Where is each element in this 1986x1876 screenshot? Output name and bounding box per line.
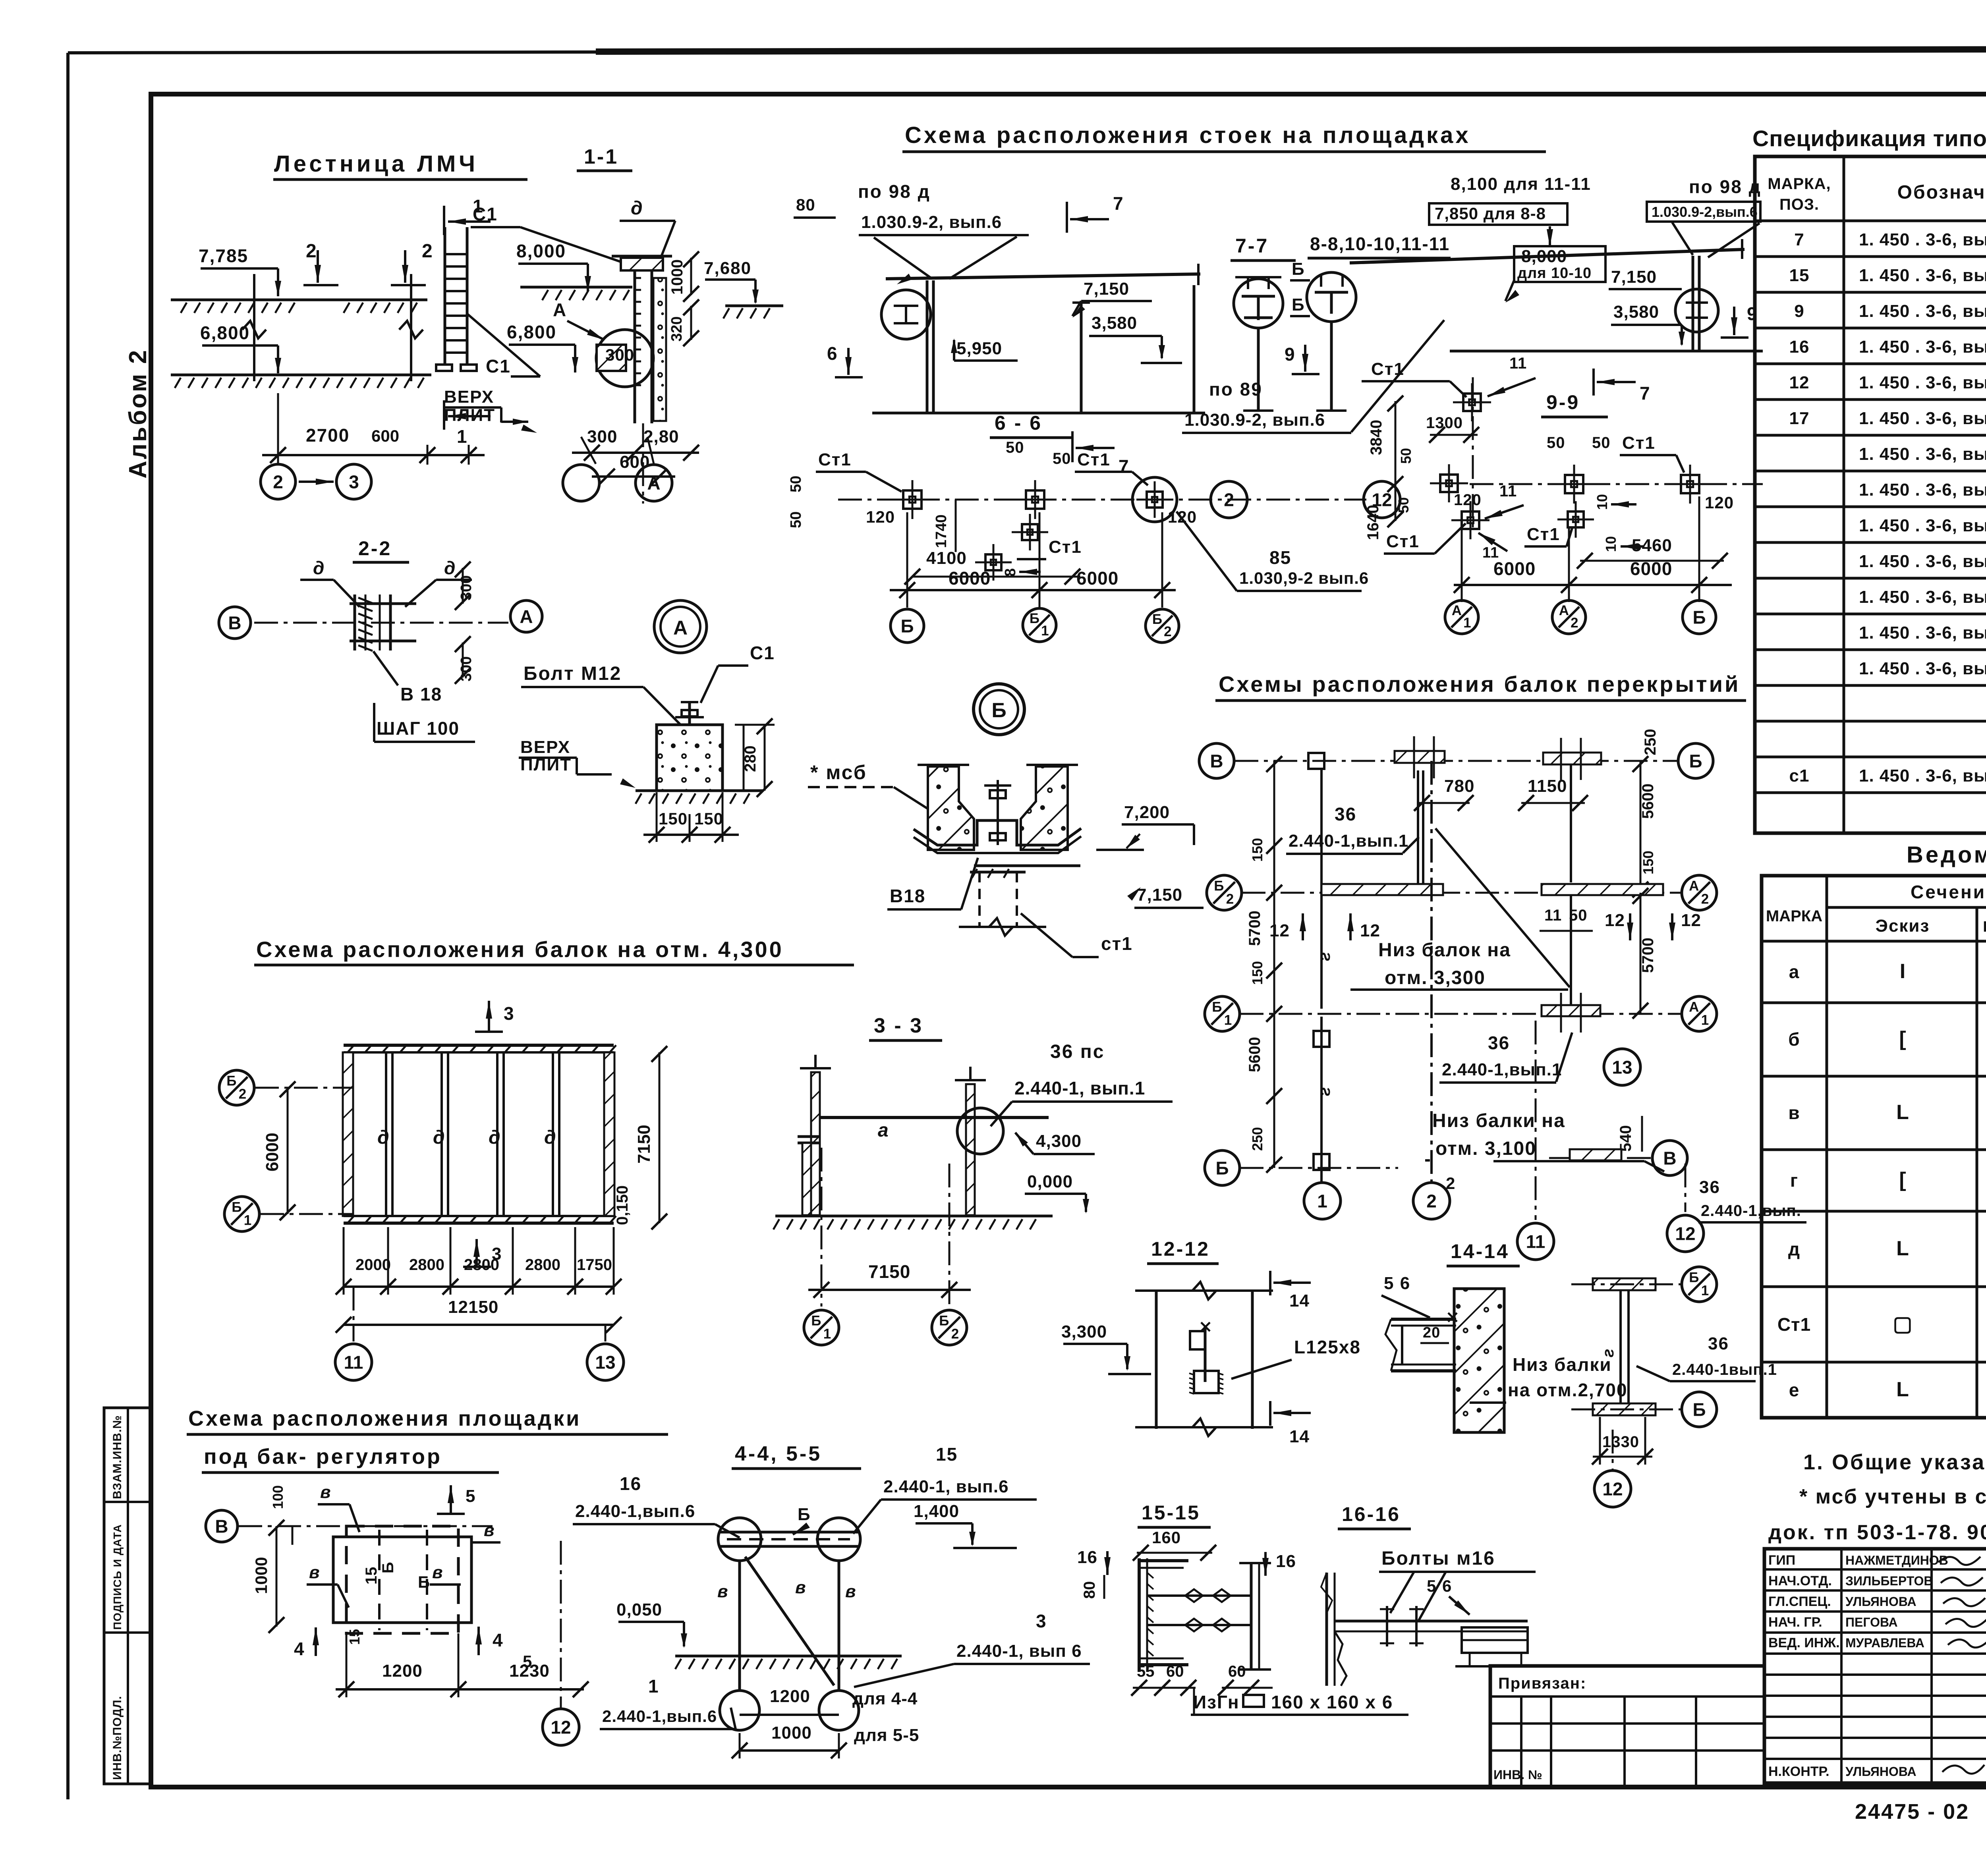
joint hatched block [597, 345, 626, 371]
small post square row3 [1314, 1031, 1329, 1047]
grid bubble 12 (6-6 plan) [1364, 481, 1400, 518]
svg-text:17: 17 [1789, 409, 1810, 428]
16-16 right channel end [1462, 1627, 1528, 1653]
grid bubble 13 [605, 1325, 607, 1341]
svg-text:7: 7 [1119, 456, 1129, 477]
grid bubble Б/2 (plan 4,300) [219, 1070, 254, 1105]
grid bubble А/2 (перекрытия row 2) [1682, 875, 1717, 910]
ground line 4-4 [675, 1655, 902, 1658]
steel beam into wall 14-14 [1391, 1318, 1456, 1321]
svg-text:12: 12 [1789, 373, 1810, 392]
svg-text:А: А [520, 606, 533, 627]
svg-text:Альбом 2: Альбом 2 [124, 349, 152, 479]
svg-text:А: А [647, 473, 660, 494]
svg-text:Ст1: Ст1 [1386, 532, 1420, 551]
svg-text:600: 600 [620, 452, 650, 472]
svg-text:1000: 1000 [668, 259, 686, 295]
svg-text:15: 15 [346, 1629, 363, 1645]
svg-text:3: 3 [349, 472, 359, 492]
svg-text:150: 150 [659, 809, 688, 828]
svg-text:50: 50 [1592, 434, 1611, 452]
svg-text:НАЧ. ГР.: НАЧ. ГР. [1768, 1615, 1822, 1630]
grid bubble Б/1 (3-3) [804, 1310, 839, 1345]
svg-text:Эскиз: Эскиз [1876, 916, 1930, 936]
svg-text:2: 2 [951, 1326, 959, 1341]
svg-text:4: 4 [493, 1630, 504, 1650]
svg-text:Б: Б [1152, 612, 1162, 627]
svg-text:Ст1: Ст1 [1371, 359, 1404, 379]
svg-text:д: д [1788, 1239, 1800, 1259]
svg-text:2800: 2800 [409, 1256, 444, 1274]
svg-text:УЛЬЯНОВА: УЛЬЯНОВА [1845, 1764, 1916, 1779]
3-3 right column [966, 1084, 975, 1215]
grid bubble (blank) under section 1-1 [581, 437, 596, 464]
grid bubble Б/1 (plan 4,300) [224, 1197, 259, 1231]
svg-text:2: 2 [306, 241, 317, 262]
svg-text:2700: 2700 [306, 425, 350, 446]
beam fragment at axis Б/1-Б (right of 14-14) [1593, 1278, 1656, 1290]
svg-text:А: А [553, 299, 567, 320]
right column I-beam with node circle [1692, 256, 1694, 351]
svg-text:12: 12 [1675, 1224, 1695, 1244]
svg-text:В18: В18 [890, 886, 925, 906]
svg-text:1. 450 . 3-6, вып. 1: 1. 450 . 3-6, вып. 1 [1859, 301, 1986, 321]
section mark 1 (top) of staircase plan [443, 206, 445, 235]
svg-text:3,580: 3,580 [1613, 302, 1659, 322]
grid bubble В (перекрытия row 1) [1199, 743, 1234, 778]
svg-text:2: 2 [1571, 615, 1578, 631]
svg-text:ПОДПИСЬ И ДАТА: ПОДПИСЬ И ДАТА [111, 1524, 124, 1630]
platform beam 4-4 [718, 1518, 761, 1561]
grid bubble Б (6-6 bottom) [891, 609, 924, 643]
svg-text:Обозначение: Обозначение [1897, 182, 1986, 203]
svg-text:2: 2 [1226, 891, 1234, 907]
svg-text:16: 16 [620, 1473, 641, 1494]
section marks 12 down-arrows (right) [1629, 913, 1631, 940]
svg-text:8,000: 8,000 [1521, 247, 1567, 266]
grid bubble Б/1 (6-6 bottom) [1023, 608, 1056, 642]
grid bubble Б (перекрытия row 4) [1205, 1150, 1240, 1185]
svg-text:50: 50 [1395, 497, 1412, 513]
svg-text:4,300: 4,300 [1036, 1131, 1082, 1151]
svg-text:50: 50 [1006, 439, 1024, 456]
svg-text:11: 11 [1526, 1231, 1546, 1252]
svg-text:А: А [673, 617, 688, 639]
svg-text:в: в [432, 1563, 443, 1582]
svg-text:2: 2 [1164, 624, 1171, 639]
svg-text:* мсб учтены в схеме расп: * мсб учтены в схеме расположения плит п… [1799, 1485, 1986, 1508]
svg-text:ИНВ.№ПОДЛ.: ИНВ.№ПОДЛ. [111, 1696, 124, 1780]
ground line at detail А [636, 789, 763, 792]
svg-text:7: 7 [1794, 230, 1804, 249]
svg-text:3: 3 [492, 1244, 502, 1264]
svg-text:2000: 2000 [355, 1256, 391, 1274]
svg-text:12: 12 [551, 1717, 571, 1738]
left stamp column box [104, 1408, 151, 1784]
svg-text:д: д [489, 1127, 500, 1148]
grid bubble Б/1 (14-14 fragment) [1682, 1267, 1717, 1302]
svg-text:е: е [1789, 1380, 1800, 1400]
svg-text:Б: Б [226, 1073, 236, 1089]
grid bubble 2 (6-6 plan) [1211, 481, 1247, 518]
svg-text:Б: Б [1292, 295, 1305, 315]
svg-text:1,400: 1,400 [914, 1502, 959, 1521]
svg-text:Б: Б [1689, 1270, 1699, 1285]
svg-text:1000: 1000 [252, 1557, 270, 1594]
svg-text:7150: 7150 [634, 1125, 654, 1164]
svg-text:Б: Б [1689, 751, 1702, 772]
svg-text:160: 160 [1152, 1528, 1181, 1547]
svg-text:в: в [1788, 1102, 1800, 1123]
title block: signature table [1764, 1549, 1986, 1783]
svg-text:С1: С1 [486, 356, 511, 376]
svg-text:2: 2 [239, 1086, 246, 1102]
ground line 3-3 [775, 1215, 1053, 1218]
svg-text:ВЕРХ: ВЕРХ [444, 387, 494, 407]
svg-text:МАРКА,: МАРКА, [1768, 175, 1831, 193]
svg-text:3: 3 [504, 1003, 515, 1024]
grid bubble 1 (перекрытия bottom) [1304, 1183, 1341, 1219]
svg-text:1: 1 [1463, 615, 1471, 631]
svg-text:0,000: 0,000 [1027, 1172, 1073, 1191]
staircase ladder plan [444, 227, 446, 365]
anchor bolt М12 [688, 702, 691, 748]
svg-text:Лестница ЛМЧ: Лестница ЛМЧ [274, 151, 478, 177]
svg-text:[: [ [1899, 1027, 1906, 1050]
svg-text:2.440-1,вып.1: 2.440-1,вып.1 [1289, 831, 1408, 851]
svg-text:1: 1 [244, 1212, 251, 1228]
svg-text:МАРКА: МАРКА [1766, 907, 1822, 925]
svg-text:5: 5 [466, 1486, 476, 1506]
boxed level 8,000 для 10-10 [1514, 246, 1605, 282]
3-3 beam а [820, 1116, 1049, 1119]
16-16 horizontal gusset [1335, 1620, 1528, 1623]
svg-text:г: г [1790, 1170, 1798, 1191]
svg-text:1.030.9-2, вып.6: 1.030.9-2, вып.6 [1184, 410, 1325, 430]
svg-text:в: в [845, 1582, 856, 1601]
svg-text:36: 36 [1699, 1177, 1720, 1197]
svg-text:Б: Б [1212, 1000, 1222, 1015]
svg-text:780: 780 [1444, 776, 1474, 796]
svg-text:300: 300 [458, 575, 475, 600]
svg-text:Спецификация типовых элементов: Спецификация типовых элементов лестниц,(… [1752, 126, 1986, 151]
svg-text:для 4-4: для 4-4 [852, 1689, 918, 1708]
svg-text:1.030,9-2 вып.6: 1.030,9-2 вып.6 [1239, 569, 1369, 587]
svg-text:д: д [631, 198, 643, 219]
detail bubble А (double circle) [654, 600, 707, 653]
grid bubble 13 (перекрытия) [1604, 1049, 1640, 1085]
svg-text:НАЧ.ОТД.: НАЧ.ОТД. [1768, 1573, 1832, 1588]
svg-text:11: 11 [344, 1352, 363, 1373]
svg-text:1. 450 . 3-6, вып. 1: 1. 450 . 3-6, вып. 1 [1859, 230, 1986, 249]
grid bubble Б/1 (перекрытия row 3) [1205, 996, 1240, 1031]
svg-text:д: д [444, 558, 455, 578]
svg-text:1200: 1200 [382, 1661, 423, 1681]
svg-text:6000: 6000 [1076, 568, 1119, 589]
svg-text:6,800: 6,800 [507, 322, 556, 342]
top platform plate (section 1-1) [621, 258, 663, 270]
svg-text:50: 50 [788, 511, 804, 528]
svg-text:36 пс: 36 пс [1050, 1041, 1105, 1062]
svg-text:50: 50 [1547, 434, 1565, 452]
svg-text:7,150: 7,150 [1137, 885, 1182, 905]
svg-text:1. 450 . 3-6, вып. 1: 1. 450 . 3-6, вып. 1 [1859, 444, 1986, 464]
section mark 1 (bottom) [443, 400, 445, 430]
section marks 12 up-arrows [1302, 913, 1304, 940]
svg-text:Б: Б [1214, 878, 1224, 894]
svg-text:С1: С1 [473, 204, 498, 224]
svg-text:16-16: 16-16 [1342, 1503, 1401, 1525]
svg-text:36: 36 [1335, 804, 1356, 824]
svg-text:в: в [309, 1563, 320, 1582]
vedomost table grid [1762, 876, 1986, 1418]
lower floor edge line with hatch [171, 374, 431, 376]
svg-text:36: 36 [1488, 1033, 1510, 1053]
svg-text:Схема расположения площадки: Схема расположения площадки [188, 1407, 581, 1430]
grid bubble В (площадка) [206, 1510, 238, 1542]
svg-text:50: 50 [1053, 450, 1071, 467]
svg-text:А: А [1559, 603, 1569, 618]
svg-text:8,000: 8,000 [516, 241, 566, 261]
concrete wall 14-14 [1454, 1289, 1504, 1432]
svg-text:160 х 160 х 6: 160 х 160 х 6 [1271, 1692, 1393, 1712]
svg-text:1230: 1230 [509, 1661, 550, 1681]
svg-text:д: д [377, 1127, 389, 1148]
svg-text:ЗИЛЬБЕРТОВ: ЗИЛЬБЕРТОВ [1845, 1574, 1933, 1588]
15-15 bolts with diamond heads [1147, 1594, 1251, 1597]
svg-text:отм. 3,300: отм. 3,300 [1385, 967, 1486, 988]
svg-text:7150: 7150 [868, 1261, 910, 1282]
support plate and column (МСБ) [974, 865, 1080, 867]
svg-text:14-14: 14-14 [1451, 1240, 1509, 1262]
svg-text:L: L [1896, 1378, 1909, 1401]
svg-text:ВЕД. ИНЖ.: ВЕД. ИНЖ. [1768, 1635, 1840, 1650]
svg-text:15: 15 [363, 1567, 380, 1585]
svg-text:L125х8: L125х8 [1294, 1337, 1361, 1357]
svg-text:120: 120 [1454, 491, 1482, 509]
svg-text:док. тп 503-1-78. 90- км, лис: док. тп 503-1-78. 90- км, лист 43 [1768, 1521, 1986, 1544]
svg-text:7,680: 7,680 [704, 259, 752, 278]
svg-text:12: 12 [1269, 921, 1290, 940]
svg-text:2.440-1,вып.1: 2.440-1,вып.1 [1442, 1060, 1562, 1079]
svg-text:В: В [1663, 1148, 1676, 1169]
ground break line (МСБ) [959, 926, 1046, 928]
svg-text:1: 1 [823, 1326, 831, 1341]
svg-text:13: 13 [1612, 1057, 1632, 1078]
svg-text:7: 7 [1113, 193, 1124, 214]
svg-text:9: 9 [1285, 344, 1295, 365]
svg-text:120: 120 [1705, 493, 1734, 512]
svg-text:5700: 5700 [1246, 911, 1263, 946]
bolt at МСБ node [997, 780, 999, 845]
grid bubble Б (14-14 fragment) [1682, 1392, 1717, 1427]
svg-text:5600: 5600 [1639, 784, 1657, 819]
svg-text:Схема расположения стоек на пл: Схема расположения стоек на площадках [905, 122, 1471, 148]
svg-text:7,785: 7,785 [199, 245, 248, 266]
svg-text:600: 600 [371, 427, 399, 445]
svg-text:55: 55 [1137, 1663, 1155, 1680]
svg-text:5700: 5700 [1639, 938, 1657, 973]
precast strip right of column [653, 278, 666, 421]
svg-text:по 98 д: по 98 д [858, 181, 931, 202]
svg-text:4-4, 5-5: 4-4, 5-5 [735, 1442, 822, 1465]
svg-text:7,850 для 8-8: 7,850 для 8-8 [1435, 204, 1546, 223]
svg-text:НАЖМЕТДИНОВ: НАЖМЕТДИНОВ [1845, 1553, 1948, 1567]
svg-text:Б: Б [1292, 259, 1305, 279]
svg-text:24475 - 02: 24475 - 02 [1855, 1800, 1969, 1824]
ground line right of section 1-1 [725, 305, 783, 307]
svg-text:А: А [1689, 1000, 1699, 1015]
3-3 left column [811, 1072, 820, 1215]
svg-text:В: В [215, 1516, 228, 1537]
specification table grid [1755, 156, 1986, 833]
weld marks 14-14 [1448, 1313, 1457, 1322]
svg-text:1. 450 . 3-6, вып. 1: 1. 450 . 3-6, вып. 1 [1859, 409, 1986, 428]
svg-text:2.440-1, вып.1: 2.440-1, вып.1 [1014, 1078, 1145, 1098]
dashed platform outline [333, 1537, 471, 1623]
svg-text:ст1: ст1 [1101, 933, 1133, 954]
svg-text:ВЕРХ: ВЕРХ [520, 737, 570, 757]
svg-text:100: 100 [270, 1485, 286, 1509]
grid bubble 11 (перекрытия bottom) [1535, 1021, 1537, 1220]
svg-text:11: 11 [1544, 907, 1562, 924]
svg-text:50: 50 [788, 476, 804, 492]
grid bubble А/1 (9-9 bottom) [1445, 600, 1478, 634]
svg-text:в: в [320, 1482, 331, 1502]
svg-text:2: 2 [273, 472, 283, 492]
svg-text:1. 450 . 3-6, вып. 1: 1. 450 . 3-6, вып. 1 [1859, 337, 1986, 357]
svg-text:1: 1 [1317, 1191, 1327, 1212]
svg-text:2: 2 [1701, 891, 1709, 907]
svg-text:2.440-1,вып.6: 2.440-1,вып.6 [575, 1502, 695, 1521]
svg-text:10: 10 [1603, 536, 1619, 552]
section marks 11 (9-9 plan) [1488, 378, 1536, 396]
svg-text:8,100 для 11-11: 8,100 для 11-11 [1451, 174, 1591, 194]
svg-text:3: 3 [1036, 1611, 1047, 1631]
svg-text:6000: 6000 [263, 1133, 282, 1172]
axis row 4 [1240, 1167, 1398, 1169]
beam strips on axis row 1 [1395, 751, 1445, 763]
svg-text:Ст1: Ст1 [1622, 433, 1656, 453]
right elevation beam top line [1350, 249, 1745, 263]
svg-text:2.440-1,вып.6: 2.440-1,вып.6 [602, 1707, 717, 1725]
svg-text:по 89: по 89 [1209, 379, 1263, 400]
svg-text:15-15: 15-15 [1142, 1502, 1200, 1524]
foundation block (concrete) [657, 725, 723, 791]
grid bubble А/1 (перекрытия row 3) [1682, 996, 1717, 1031]
grid bubble Б (9-9 bottom) [1683, 600, 1716, 634]
axis line of 6-6 plan [838, 499, 1366, 501]
svg-text:3 - 3: 3 - 3 [874, 1014, 923, 1037]
svg-text:г: г [1315, 1087, 1333, 1096]
svg-text:12: 12 [1602, 1479, 1623, 1500]
svg-text:с1: с1 [1789, 766, 1810, 786]
svg-text:120: 120 [866, 508, 895, 526]
svg-text:Б: Б [798, 1505, 811, 1524]
svg-text:1: 1 [457, 426, 468, 447]
svg-text:Б: Б [991, 699, 1006, 722]
grid bubble 2 of staircase plan [277, 455, 279, 464]
axis row 3 with beam strip [1240, 1013, 1682, 1015]
svg-text:▢: ▢ [1893, 1312, 1912, 1336]
outer sheet border (left+top) [66, 53, 70, 1799]
svg-text:12-12: 12-12 [1151, 1238, 1210, 1260]
grid bubble Б (перекрытия row 1 right) [1678, 743, 1713, 778]
svg-text:16: 16 [1789, 337, 1810, 357]
grid bubble В (2-2) [219, 607, 251, 639]
svg-text:Ст1: Ст1 [1049, 537, 1082, 557]
svg-text:7-7: 7-7 [1235, 235, 1269, 257]
axis row 2 with beam strips [1242, 892, 1682, 894]
svg-text:ШАГ 100: ШАГ 100 [377, 718, 460, 739]
svg-text:Б: Б [1215, 1158, 1229, 1179]
svg-text:* мсб: * мсб [810, 761, 867, 784]
svg-text:1. Общие указания на листе 1: 1. Общие указания на листе 1. [1803, 1450, 1986, 1474]
svg-text:L: L [1896, 1237, 1909, 1260]
columns of 4-4 frame [738, 1561, 741, 1691]
svg-text:120: 120 [1168, 508, 1197, 526]
svg-text:д: д [433, 1127, 445, 1148]
svg-text:А: А [1689, 878, 1699, 894]
ground line (right elevation) [1450, 350, 1763, 353]
svg-text:1.030.9-2,вып.6: 1.030.9-2,вып.6 [1652, 204, 1758, 220]
svg-text:Б: Б [1030, 611, 1039, 626]
svg-text:150: 150 [1640, 851, 1656, 874]
svg-text:1. 450 . 3-6, вып. 1: 1. 450 . 3-6, вып. 1 [1859, 516, 1986, 535]
svg-text:8-8,10-10,11-11: 8-8,10-10,11-11 [1310, 234, 1450, 254]
svg-text:1: 1 [648, 1676, 659, 1697]
svg-text:Поз.: Поз. [1983, 919, 1986, 935]
column squares 6-6 plan [903, 490, 922, 509]
detail circle А around joint [596, 330, 653, 387]
concrete slabs of МСБ node [928, 766, 974, 850]
svg-text:Болт М12: Болт М12 [524, 663, 622, 684]
svg-text:В: В [228, 613, 241, 633]
right column of left elevation [1193, 285, 1196, 413]
detail bubble Б (double circle) [974, 684, 1024, 735]
svg-text:Ст1: Ст1 [818, 450, 852, 469]
grid bubble А under section 1-1 [647, 437, 654, 464]
beam strip near В bubble [1570, 1149, 1621, 1160]
svg-text:б: б [1788, 1029, 1800, 1050]
16-16 bolts [1386, 1606, 1388, 1646]
svg-text:12: 12 [1605, 911, 1625, 930]
small post square row1 [1308, 753, 1324, 769]
svg-text:1. 450 . 3-6, вып. 1: 1. 450 . 3-6, вып. 1 [1859, 552, 1986, 571]
svg-text:ИзГн: ИзГн [1193, 1692, 1240, 1712]
svg-text:Ст1: Ст1 [1077, 450, 1111, 469]
grid bubble В (перекрытия right bottom) [1652, 1141, 1687, 1175]
svg-text:60: 60 [1228, 1663, 1246, 1680]
svg-text:ПЕГОВА: ПЕГОВА [1845, 1615, 1898, 1629]
svg-text:150: 150 [1249, 961, 1265, 985]
svg-text:УЛЬЯНОВА: УЛЬЯНОВА [1845, 1594, 1916, 1609]
svg-text:Б: Б [900, 616, 914, 637]
svg-text:1-1: 1-1 [584, 145, 618, 168]
svg-text:1750: 1750 [577, 1256, 612, 1274]
svg-text:1. 450 . 3-6, вып. 1: 1. 450 . 3-6, вып. 1 [1859, 587, 1986, 607]
svg-text:г: г [1600, 1349, 1617, 1357]
level 7,200 flag tail (МСБ) [1096, 849, 1144, 851]
svg-text:Б: Б [232, 1200, 241, 1215]
svg-text:1: 1 [1701, 1012, 1709, 1028]
svg-text:1200: 1200 [770, 1687, 810, 1706]
grid bubble 11 [353, 1287, 355, 1341]
section mark 5 (top, площадка) [450, 1485, 452, 1514]
steel channel between slabs (МСБ) [914, 820, 1081, 845]
svg-text:7: 7 [1640, 383, 1650, 403]
svg-text:д: д [313, 558, 324, 578]
